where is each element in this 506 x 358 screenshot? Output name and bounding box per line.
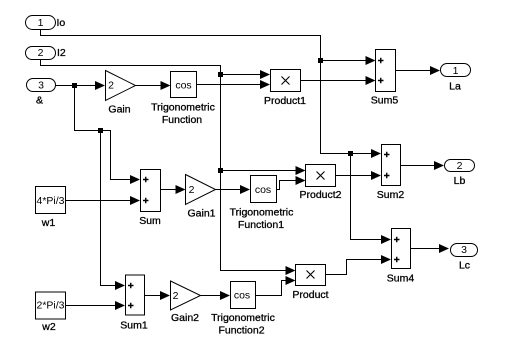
svg-text:Sum4: Sum4 bbox=[387, 273, 415, 285]
svg-text:Function: Function bbox=[162, 114, 202, 126]
svg-text:3: 3 bbox=[38, 80, 44, 92]
svg-text:Trigonometric: Trigonometric bbox=[230, 207, 294, 219]
svg-text:La: La bbox=[449, 81, 461, 93]
svg-text:Lb: Lb bbox=[454, 175, 466, 187]
svg-text:Io: Io bbox=[57, 17, 66, 29]
svg-text:Sum2: Sum2 bbox=[377, 189, 405, 201]
svg-text:Product2: Product2 bbox=[299, 189, 341, 201]
svg-text:Trigonometric: Trigonometric bbox=[211, 312, 275, 324]
svg-text:2: 2 bbox=[38, 47, 44, 59]
svg-text:Product1: Product1 bbox=[264, 95, 306, 107]
svg-text:2: 2 bbox=[173, 290, 179, 302]
svg-text:cos: cos bbox=[255, 184, 271, 196]
svg-text:Sum: Sum bbox=[139, 215, 161, 227]
svg-text:&: & bbox=[36, 95, 43, 107]
svg-text:Function1: Function1 bbox=[238, 219, 284, 231]
svg-text:3: 3 bbox=[461, 244, 467, 256]
svg-text:Gain2: Gain2 bbox=[171, 312, 199, 324]
svg-text:w1: w1 bbox=[41, 217, 56, 229]
svg-text:Product: Product bbox=[292, 289, 328, 301]
svg-text:2: 2 bbox=[108, 80, 114, 92]
svg-text:w2: w2 bbox=[41, 321, 56, 333]
svg-text:Lc: Lc bbox=[459, 260, 470, 272]
svg-text:Gain1: Gain1 bbox=[187, 208, 215, 220]
svg-text:Sum1: Sum1 bbox=[120, 320, 148, 332]
svg-text:Sum5: Sum5 bbox=[371, 95, 399, 107]
svg-text:2: 2 bbox=[457, 160, 463, 172]
svg-text:2: 2 bbox=[189, 184, 195, 196]
svg-text:1: 1 bbox=[453, 65, 459, 77]
svg-text:Trigonometric: Trigonometric bbox=[151, 102, 215, 114]
svg-text:4*Pi/3: 4*Pi/3 bbox=[36, 195, 64, 207]
svg-text:Function2: Function2 bbox=[218, 325, 264, 337]
svg-text:cos: cos bbox=[175, 80, 191, 92]
svg-text:I2: I2 bbox=[57, 47, 66, 59]
svg-text:2*Pi/3: 2*Pi/3 bbox=[36, 300, 64, 312]
svg-text:cos: cos bbox=[234, 290, 250, 302]
svg-text:Gain: Gain bbox=[108, 104, 130, 116]
svg-text:1: 1 bbox=[38, 17, 44, 29]
